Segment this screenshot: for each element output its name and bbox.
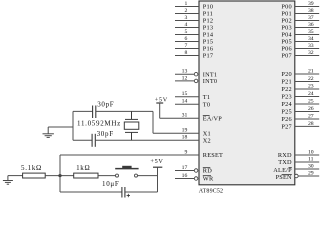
- svg-text:P02: P02: [281, 18, 291, 25]
- svg-text:P11: P11: [203, 11, 213, 18]
- svg-text:29: 29: [308, 170, 314, 176]
- resistor R1 5.1k: [23, 173, 46, 178]
- wire top: left of C1: [73, 110, 93, 112]
- wire junction up to RESET: [59, 155, 61, 192]
- wire R2 to switch: [98, 175, 116, 177]
- node bubble PSEN: [295, 174, 299, 178]
- svg-text:33: 33: [308, 43, 314, 49]
- svg-text:P24: P24: [281, 101, 292, 108]
- overline EA: [203, 115, 210, 117]
- crystal Y1: [124, 111, 139, 140]
- overline ALE/P (over P): [289, 166, 292, 168]
- pin labels left inside chip: [203, 4, 223, 183]
- svg-text:PSEN: PSEN: [276, 174, 292, 181]
- plus sign: [127, 194, 130, 197]
- svg-text:4: 4: [184, 22, 187, 28]
- svg-text:16: 16: [182, 173, 188, 179]
- wire jog down to X1: [152, 111, 154, 133]
- svg-text:P26: P26: [281, 116, 291, 123]
- svg-text:+5V: +5V: [155, 96, 168, 103]
- svg-text:AT89C52: AT89C52: [199, 188, 223, 194]
- wire EA/VP: [160, 117, 199, 119]
- wire RESET: [60, 154, 199, 156]
- svg-text:P01: P01: [281, 11, 291, 18]
- svg-text:7: 7: [184, 43, 187, 49]
- svg-text:P21: P21: [281, 79, 291, 86]
- svg-text:30pF: 30pF: [97, 130, 114, 138]
- svg-text:P17: P17: [203, 53, 213, 60]
- wire X1: [153, 132, 199, 134]
- svg-text:11: 11: [308, 156, 314, 162]
- svg-text:32: 32: [308, 50, 314, 56]
- svg-text:INT0: INT0: [203, 78, 217, 85]
- svg-text:10μF: 10μF: [102, 180, 119, 188]
- svg-text:P00: P00: [281, 4, 291, 11]
- resistor R2 1k: [74, 173, 98, 178]
- wire gnd to R1: [8, 175, 23, 177]
- svg-text:14: 14: [182, 99, 188, 105]
- pin numbers right: [308, 1, 314, 177]
- node junction: [58, 174, 61, 177]
- svg-text:RD: RD: [203, 168, 212, 175]
- svg-text:RXD: RXD: [278, 152, 292, 159]
- svg-text:12: 12: [182, 75, 188, 81]
- svg-text:1: 1: [184, 1, 187, 7]
- svg-text:P20: P20: [281, 71, 291, 78]
- wire bottom: left of C2: [73, 139, 92, 141]
- svg-text:39: 39: [308, 1, 314, 7]
- svg-text:13: 13: [182, 69, 188, 75]
- svg-text:31: 31: [182, 113, 188, 119]
- capacitor C2 30pF: [92, 134, 95, 147]
- wire switch to +5V rail: [138, 175, 158, 177]
- svg-text:21: 21: [308, 68, 314, 74]
- svg-text:15: 15: [182, 91, 188, 97]
- wire gnd to loop: [48, 126, 73, 128]
- svg-text:11.0592MHz: 11.0592MHz: [77, 119, 121, 127]
- svg-text:P14: P14: [203, 32, 214, 39]
- svg-text:6: 6: [184, 36, 187, 42]
- node bubbles INT1 INT0 RD WR: [194, 72, 198, 180]
- svg-text:5.1kΩ: 5.1kΩ: [21, 164, 42, 172]
- svg-text:T1: T1: [203, 94, 210, 101]
- svg-text:X2: X2: [203, 137, 211, 144]
- svg-text:P27: P27: [281, 124, 291, 131]
- wire bottom to C3: [60, 191, 122, 193]
- svg-text:26: 26: [308, 106, 314, 112]
- svg-text:5: 5: [184, 29, 187, 35]
- svg-text:ALE/P: ALE/P: [273, 167, 292, 174]
- svg-text:P25: P25: [281, 109, 291, 116]
- svg-text:P04: P04: [281, 32, 292, 39]
- svg-text:P06: P06: [281, 46, 291, 53]
- svg-text:2: 2: [184, 8, 187, 14]
- svg-text:T0: T0: [203, 101, 210, 108]
- svg-text:8: 8: [184, 50, 187, 56]
- svg-text:24: 24: [308, 91, 314, 97]
- svg-text:P05: P05: [281, 39, 291, 46]
- switch S1: [115, 166, 138, 177]
- svg-text:P16: P16: [203, 46, 213, 53]
- svg-text:27: 27: [308, 113, 314, 119]
- svg-text:23: 23: [308, 83, 314, 89]
- svg-text:38: 38: [308, 8, 314, 14]
- wire C3 to +5V rail: [125, 191, 158, 193]
- wire: [175, 7, 199, 179]
- svg-text:17: 17: [182, 165, 188, 171]
- svg-text:P07: P07: [281, 53, 291, 60]
- wire bottom: right of C2 to X2: [95, 139, 199, 141]
- svg-text:RESET: RESET: [203, 152, 223, 159]
- wire left vertical: [72, 111, 74, 140]
- wire right side pins: [295, 7, 319, 177]
- svg-text:P13: P13: [203, 25, 213, 32]
- ground (crystal): [43, 127, 54, 137]
- capacitor C1 30pF: [93, 106, 96, 119]
- svg-text:P03: P03: [281, 25, 291, 32]
- svg-text:1kΩ: 1kΩ: [76, 164, 90, 172]
- svg-text:WR: WR: [203, 176, 214, 183]
- capacitor C3 10uF: [122, 187, 125, 198]
- pin labels right inside chip: [273, 4, 292, 182]
- svg-text:37: 37: [308, 15, 314, 21]
- svg-text:P23: P23: [281, 94, 291, 101]
- svg-text:P12: P12: [203, 18, 213, 25]
- svg-text:36: 36: [308, 22, 314, 28]
- svg-text:TXD: TXD: [278, 159, 292, 166]
- svg-text:P15: P15: [203, 39, 213, 46]
- svg-text:3: 3: [184, 15, 187, 21]
- svg-text:10: 10: [308, 149, 314, 155]
- svg-text:28: 28: [308, 121, 314, 127]
- overline RD: [203, 167, 211, 169]
- svg-text:P10: P10: [203, 4, 213, 11]
- pin numbers left: [182, 1, 188, 179]
- svg-text:25: 25: [308, 98, 314, 104]
- svg-text:EA/VP: EA/VP: [203, 116, 222, 123]
- wire top: right of C1: [96, 110, 153, 112]
- svg-text:+5V: +5V: [150, 158, 163, 165]
- svg-text:34: 34: [308, 36, 314, 42]
- overline PSEN: [282, 173, 292, 175]
- svg-text:30pF: 30pF: [97, 101, 114, 109]
- wire R1 to junction to R2: [45, 175, 73, 177]
- overline WR: [203, 175, 211, 177]
- svg-text:P22: P22: [281, 86, 291, 93]
- svg-text:30: 30: [308, 163, 314, 169]
- svg-text:22: 22: [308, 76, 314, 82]
- ground (reset): [3, 176, 13, 185]
- IC U1 AT89C52: [199, 1, 295, 185]
- svg-text:35: 35: [308, 29, 314, 35]
